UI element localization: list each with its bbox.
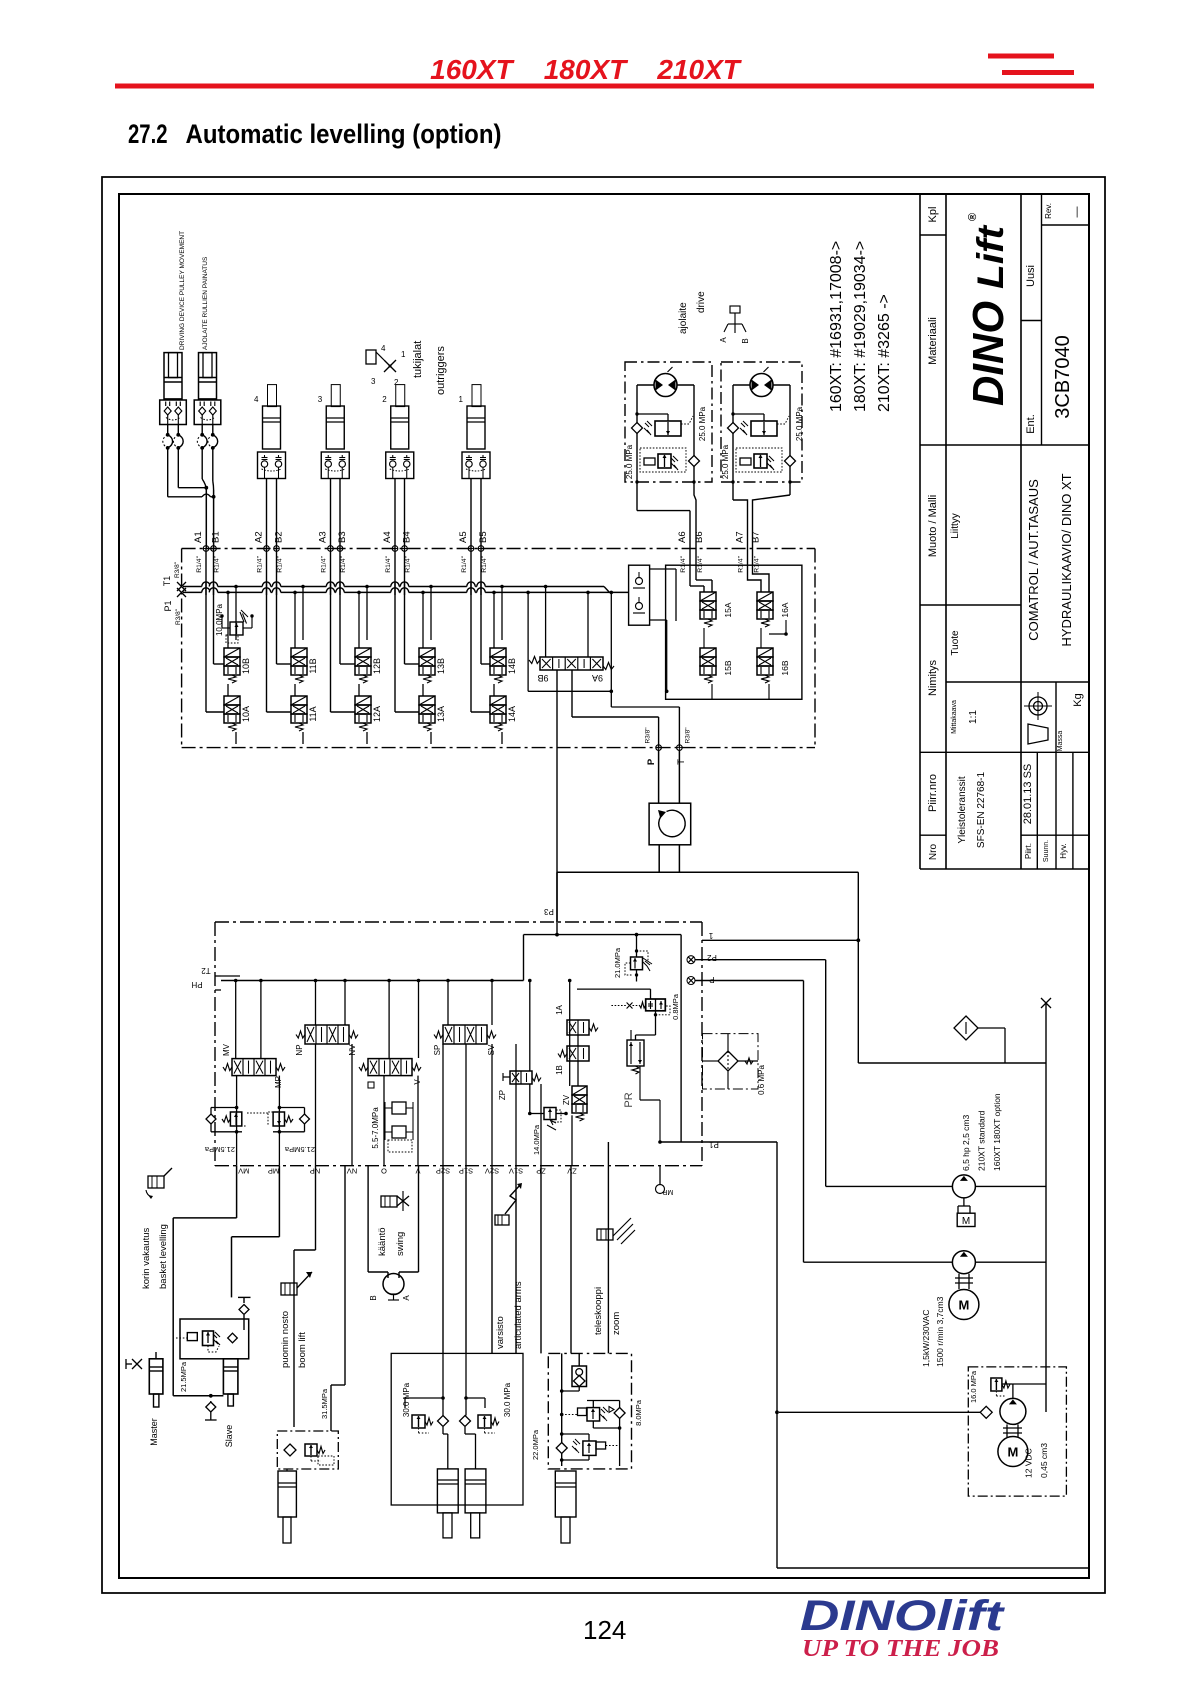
svg-text:A7: A7 — [735, 531, 746, 543]
rail hop at 481 — [477, 584, 485, 588]
arms cylinders — [437, 1469, 458, 1513]
svg-text:9B: 9B — [537, 673, 548, 683]
svg-text:A3: A3 — [318, 531, 329, 543]
svg-text:A4: A4 — [382, 531, 393, 543]
svg-text:COMATROL / AUT.TASAUS: COMATROL / AUT.TASAUS — [1026, 479, 1041, 641]
valve 12A — [355, 696, 371, 705]
return filter 0.6MPa — [703, 1034, 759, 1089]
svg-text:30.0 MPa: 30.0 MPa — [402, 1382, 411, 1417]
wires S ports down — [442, 1166, 444, 1354]
svg-text:UP TO THE JOB: UP TO THE JOB — [802, 1636, 999, 1662]
svg-text:5.5-7.0MPa: 5.5-7.0MPa — [371, 1107, 380, 1149]
svg-text:DINO: DINO — [964, 301, 1013, 406]
svg-text:10B: 10B — [241, 658, 251, 674]
rail hop at 266.5 — [262, 584, 270, 588]
wires cylinder 4 to ports — [266, 479, 268, 549]
valve 16B — [757, 648, 773, 657]
wires ZP ZV down — [540, 1166, 542, 1354]
suction vertical — [1045, 1003, 1047, 1412]
svg-text:2: 2 — [382, 395, 387, 404]
svg-text:PH: PH — [191, 980, 202, 989]
svg-text:HYDRAULIKAAVIO/ DINO XT: HYDRAULIKAAVIO/ DINO XT — [1059, 473, 1074, 646]
svg-text:A: A — [402, 1295, 411, 1301]
valve block 15 16 — [666, 565, 802, 699]
svg-text:B4: B4 — [402, 531, 413, 543]
boom lift lever icon — [281, 1283, 297, 1295]
svg-text:10A: 10A — [241, 706, 251, 722]
pilot check block — [629, 565, 650, 625]
svg-text:R1/4": R1/4" — [321, 555, 328, 572]
svg-text:P: P — [709, 975, 714, 984]
wires valve 12 — [358, 592, 360, 648]
wires coupling to P3 trunk — [658, 845, 660, 873]
svg-text:16.0 MPa: 16.0 MPa — [969, 1370, 978, 1403]
svg-text:P: P — [646, 758, 657, 765]
pilot check telescope — [572, 1366, 587, 1387]
slave cylinder — [223, 1359, 238, 1394]
svg-text:160XT 180XT option: 160XT 180XT option — [992, 1093, 1002, 1171]
svg-text:MV: MV — [222, 1043, 231, 1056]
svg-text:P3: P3 — [544, 907, 554, 916]
svg-text:1,5kW/230VAC: 1,5kW/230VAC — [921, 1310, 931, 1367]
electric pump 1.5kW — [952, 1251, 975, 1274]
svg-text:R1/4": R1/4" — [754, 555, 761, 572]
svg-text:3: 3 — [371, 377, 376, 386]
svg-text:R1/4": R1/4" — [481, 555, 488, 572]
master cylinder — [149, 1359, 163, 1394]
svg-text:Piirr.nro: Piirr.nro — [927, 774, 939, 812]
svg-text:MP: MP — [268, 1167, 279, 1176]
svg-text:160XT 180XT 210XT: 160XT 180XT 210XT — [430, 54, 743, 85]
svg-text:3: 3 — [318, 395, 323, 404]
drive motor circuit box 2 — [721, 362, 802, 482]
crossover relief valves 1 — [632, 423, 643, 434]
wires O V to swing motor — [367, 1166, 369, 1272]
valve 14A — [490, 696, 506, 705]
svg-text:3CB7040: 3CB7040 — [1052, 335, 1074, 418]
svg-text:Hyv.: Hyv. — [1059, 843, 1068, 858]
svg-text:1A: 1A — [555, 1004, 564, 1014]
svg-text:basket levelling: basket levelling — [158, 1224, 169, 1289]
valve ZP — [510, 1071, 532, 1084]
svg-text:B7: B7 — [751, 531, 762, 543]
svg-text:R1/4": R1/4" — [257, 555, 264, 572]
svg-text:teleskooppi: teleskooppi — [593, 1287, 604, 1335]
svg-text:Slave: Slave — [224, 1425, 234, 1448]
svg-text:MP: MP — [274, 1076, 283, 1088]
wires valve 13 — [422, 592, 424, 648]
svg-text:A6: A6 — [677, 531, 688, 543]
svg-text:1:1: 1:1 — [968, 710, 979, 724]
svg-text:R3/8": R3/8" — [685, 727, 692, 744]
svg-text:R1/4": R1/4" — [214, 555, 221, 572]
inner drawing frame — [119, 194, 1089, 1578]
upper manifold dash-dot boundary — [182, 548, 815, 550]
valve 16A — [757, 592, 773, 601]
hydraulic motor 2 — [750, 374, 773, 397]
lock valve block 1 — [160, 400, 187, 425]
rail hop at 276.5 — [272, 584, 280, 588]
wire 471 to valve column — [470, 549, 472, 713]
svg-text:Automatic levelling (option): Automatic levelling (option) — [186, 119, 502, 149]
svg-text:R1/4": R1/4" — [680, 555, 687, 572]
svg-text:R3/8": R3/8" — [645, 727, 652, 744]
breather symbol — [1041, 998, 1051, 1008]
outrigger lock valve block 2 — [386, 452, 414, 479]
svg-text:15B: 15B — [723, 660, 733, 675]
port MP stub — [659, 1166, 661, 1184]
svg-text:9A: 9A — [592, 673, 603, 683]
svg-text:NV: NV — [347, 1167, 357, 1176]
svg-text:10.0MPa: 10.0MPa — [215, 603, 224, 636]
svg-text:R1/4": R1/4" — [340, 555, 347, 572]
wire drop x448 — [447, 981, 449, 1026]
relief pair 21.5MPa basket — [210, 1108, 212, 1132]
wires motor loop 2 — [732, 385, 734, 482]
svg-text:16B: 16B — [780, 660, 790, 675]
wire P to electric pump — [695, 980, 804, 982]
check drain below — [206, 1402, 216, 1412]
svg-text:M: M — [958, 1298, 969, 1313]
rail hop at 213.5 — [209, 584, 217, 588]
svg-text:drive: drive — [696, 291, 707, 313]
relief 16.0MPa — [991, 1378, 1002, 1391]
svg-text:1: 1 — [401, 350, 406, 359]
engine pump 6.5hp — [952, 1175, 975, 1198]
svg-text:8.0MPa: 8.0MPa — [634, 1399, 643, 1426]
svg-text:R1/4": R1/4" — [196, 555, 203, 572]
lower manifold supply rail — [221, 980, 524, 982]
svg-text:4: 4 — [381, 344, 386, 353]
valve 9B 9A — [540, 657, 603, 670]
svg-text:zoom: zoom — [611, 1312, 622, 1335]
valve 13A — [419, 696, 435, 705]
outrigger lock valve block 3 — [321, 452, 349, 479]
arms relief block 30.0MPa — [391, 1353, 523, 1505]
wires valve 11 — [294, 592, 296, 648]
svg-text:—: — — [1071, 207, 1083, 218]
svg-text:Materiaali: Materiaali — [927, 317, 939, 365]
DINO Lift logo in title block — [964, 213, 1013, 406]
svg-text:MV: MV — [238, 1167, 249, 1176]
svg-text:25.0 MPa: 25.0 MPa — [795, 406, 804, 441]
svg-text:B5: B5 — [478, 531, 489, 543]
valve PR — [627, 1040, 644, 1066]
svg-text:B: B — [369, 1295, 378, 1300]
relief 21.0MPa — [636, 935, 638, 957]
telescope relief upper — [562, 1414, 577, 1416]
wires NP NV to boom valve — [315, 1166, 317, 1250]
svg-text:14A: 14A — [507, 706, 517, 722]
outrigger cylinder 1 — [472, 385, 481, 407]
svg-text:11B: 11B — [308, 658, 318, 673]
drive motor circuit box 1 — [625, 362, 712, 482]
wire dd lines merge to A1 B1 — [177, 448, 179, 488]
svg-text:R1/4": R1/4" — [738, 555, 745, 572]
svg-text:B1: B1 — [211, 531, 222, 543]
header logo bars — [988, 54, 1054, 59]
crossover relief valves 2 — [728, 423, 739, 434]
svg-text:PR: PR — [623, 1092, 635, 1107]
check valve to slave — [238, 1296, 251, 1298]
svg-text:B6: B6 — [694, 531, 705, 543]
rail hop at 404.5 — [400, 584, 408, 588]
svg-text:R3/8": R3/8" — [175, 608, 182, 625]
svg-text:Kg: Kg — [1072, 693, 1084, 706]
svg-text:DINOlift: DINOlift — [800, 1592, 1005, 1640]
hydraulic motor 1 — [654, 374, 677, 397]
wires check block to trunk — [650, 568, 676, 570]
svg-text:SFS-EN 22768-1: SFS-EN 22768-1 — [976, 771, 987, 848]
port T — [677, 745, 683, 751]
svg-text:6,5 hp 2,5 cm3: 6,5 hp 2,5 cm3 — [961, 1114, 971, 1171]
valve 11A — [291, 696, 307, 705]
svg-text:22.0MPa: 22.0MPa — [531, 1429, 540, 1460]
svg-text:160XT: #16931,17008->: 160XT: #16931,17008-> — [828, 241, 845, 412]
outrigger cylinder 4 — [268, 385, 277, 407]
telescope relief lower — [556, 1443, 567, 1454]
wire drop x418.5 — [418, 981, 420, 1059]
svg-text:kääntö: kääntö — [377, 1227, 388, 1256]
svg-text:Mittakaava: Mittakaava — [951, 700, 958, 734]
svg-text:25.0 MPa: 25.0 MPa — [721, 444, 730, 479]
valve 1A 1B — [567, 1020, 589, 1035]
svg-text:31.5MPa: 31.5MPa — [320, 1388, 329, 1419]
svg-text:Liittyy: Liittyy — [950, 513, 961, 539]
outrigger cylinder 2 — [396, 385, 405, 407]
wires cylinder 3 to ports — [330, 479, 332, 549]
lock valve block 2 — [194, 400, 221, 425]
wires cylinder 1 to ports — [470, 479, 472, 549]
swing lever icon — [381, 1196, 397, 1207]
svg-text:4: 4 — [254, 395, 259, 404]
svg-text:124: 124 — [583, 1615, 626, 1645]
svg-text:0,45 cm3: 0,45 cm3 — [1039, 1443, 1049, 1478]
wire A1 B1 to valve 10 — [205, 549, 207, 713]
svg-text:®: ® — [967, 213, 979, 221]
svg-text:27.2: 27.2 — [128, 119, 168, 149]
port T1 — [177, 582, 186, 591]
wires drive boxes to ports A6 B6 A7 B7 — [636, 482, 638, 511]
wire drop x389.1 — [388, 981, 390, 1059]
ports A1-B5 — [203, 546, 209, 552]
valve 12B — [355, 648, 371, 657]
svg-text:11A: 11A — [308, 706, 318, 721]
svg-text:korin vakautus: korin vakautus — [141, 1227, 152, 1289]
svg-text:A2: A2 — [254, 531, 265, 543]
svg-text:1500 r/min 3,7cm3: 1500 r/min 3,7cm3 — [935, 1296, 945, 1367]
svg-text:ZV: ZV — [562, 1094, 571, 1105]
svg-text:T: T — [676, 759, 687, 765]
outrigger lock valve block 1 — [462, 452, 490, 479]
wires valves to bottom ports — [236, 1076, 238, 1166]
wire drop x260.9 — [260, 981, 262, 1059]
svg-text:Nro: Nro — [928, 844, 939, 861]
svg-text:Uusi: Uusi — [1025, 265, 1037, 287]
svg-text:180XT: #19029,19034->: 180XT: #19029,19034-> — [852, 241, 869, 412]
svg-text:R1/4": R1/4" — [385, 555, 392, 572]
valve 15A — [700, 592, 716, 601]
lower manifold dash-dot box — [215, 921, 702, 923]
wires valve 9 — [545, 587, 547, 658]
emergency pump — [1000, 1398, 1026, 1424]
svg-text:28.01.13 SS: 28.01.13 SS — [1022, 764, 1034, 825]
svg-text:0.8MPa: 0.8MPa — [671, 993, 680, 1020]
P3 distribution wires — [556, 922, 558, 935]
svg-text:Tuote: Tuote — [950, 630, 961, 656]
wire 330.5 to valve column — [330, 549, 332, 713]
outrigger joystick icon — [366, 350, 376, 364]
reducing valve 0.8MPa — [577, 988, 651, 990]
wire drop x569.7 — [569, 981, 571, 1087]
wire port 1 to suction — [702, 939, 858, 941]
A1 B1 risers — [205, 488, 207, 549]
svg-text:T1: T1 — [162, 576, 172, 587]
svg-text:Nimitys: Nimitys — [927, 659, 939, 696]
wires cylinder 2 to ports — [394, 479, 396, 549]
svg-text:Suunn.: Suunn. — [1043, 840, 1050, 862]
telescope cylinder — [555, 1471, 576, 1517]
valve 15B — [700, 648, 716, 657]
title block grid — [919, 194, 921, 869]
svg-text:1: 1 — [459, 395, 464, 404]
svg-text:outriggers: outriggers — [435, 346, 447, 395]
basket levelling hand symbol — [148, 1176, 164, 1188]
svg-text:14B: 14B — [507, 658, 517, 674]
levelling valve block 21.5MPa — [180, 1319, 249, 1359]
rail hop at 471 — [467, 584, 475, 588]
valve NP NV — [305, 1025, 349, 1044]
valve 10B — [224, 648, 240, 657]
svg-text:14.0MPa: 14.0MPa — [532, 1124, 541, 1155]
svg-text:21.5MPa: 21.5MPa — [204, 1145, 235, 1154]
drive direction symbol A B — [730, 306, 740, 313]
PR connection lines — [639, 1078, 641, 1100]
svg-text:12B: 12B — [372, 658, 382, 674]
svg-text:B: B — [741, 338, 750, 343]
svg-text:R1/4": R1/4" — [697, 555, 704, 572]
svg-text:0.6 MPa: 0.6 MPa — [757, 1065, 766, 1095]
outrigger cylinder 3 — [331, 385, 340, 407]
rail hop at 206 — [202, 584, 210, 588]
wires valve 14 — [493, 592, 495, 648]
svg-text:R1/4": R1/4" — [277, 555, 284, 572]
svg-text:articulated arms: articulated arms — [513, 1281, 524, 1349]
svg-text:ZP: ZP — [498, 1090, 507, 1100]
wires motor loop 1 — [636, 385, 638, 482]
svg-text:210XT standard: 210XT standard — [977, 1110, 987, 1171]
wires valve 10 — [227, 592, 229, 648]
svg-text:Kpl: Kpl — [927, 207, 939, 223]
svg-text:12A: 12A — [372, 706, 382, 722]
telescope icon — [597, 1229, 613, 1240]
wire drop x529.8 — [529, 981, 531, 1072]
emergency pump box 12VDC — [968, 1367, 1066, 1496]
wire 395 to valve column — [394, 549, 396, 713]
svg-text:P2: P2 — [707, 953, 717, 962]
tank return line — [660, 1141, 777, 1143]
hose arcs — [167, 425, 169, 435]
valve MV MP — [232, 1059, 276, 1076]
wires A6 B6 to valve15 — [689, 549, 691, 587]
valve 11B — [291, 648, 307, 657]
svg-text:13A: 13A — [436, 706, 446, 722]
svg-text:NP: NP — [295, 1044, 304, 1055]
svg-text:tukijalat: tukijalat — [412, 341, 424, 378]
svg-text:12 VDC: 12 VDC — [1024, 1448, 1034, 1478]
wire drop x315.5 — [315, 981, 317, 1026]
svg-text:M: M — [962, 1216, 970, 1227]
relief 14.0MPa — [544, 1108, 556, 1120]
svg-text:MP: MP — [662, 1188, 673, 1195]
svg-text:Yleistoleranssit: Yleistoleranssit — [957, 776, 968, 843]
wire drop x235.7 — [235, 981, 237, 1059]
svg-text:R1/4": R1/4" — [461, 555, 468, 572]
valve ZV — [572, 1086, 587, 1095]
valve 13B — [419, 648, 435, 657]
svg-text:15A: 15A — [723, 602, 733, 617]
header red rule — [115, 84, 1094, 89]
svg-text:B3: B3 — [337, 531, 348, 543]
svg-text:T2: T2 — [201, 966, 211, 975]
wire 14 feed to T drop — [526, 591, 530, 595]
outer drawing frame — [102, 177, 1105, 1593]
svg-text:A5: A5 — [458, 531, 469, 543]
svg-text:O: O — [381, 1167, 387, 1176]
svg-text:AJOLAITE RULLIEN PAINATUS: AJOLAITE RULLIEN PAINATUS — [202, 256, 209, 350]
svg-text:A: A — [719, 337, 728, 343]
telescope valve box — [548, 1353, 631, 1469]
svg-text:1: 1 — [708, 931, 713, 940]
svg-text:B2: B2 — [274, 531, 285, 543]
svg-text:Massa: Massa — [1057, 731, 1064, 752]
wires A7 B7 to valve16 — [748, 549, 762, 593]
svg-text:Rev.: Rev. — [1044, 203, 1053, 219]
wire drop x492 — [491, 981, 493, 1026]
svg-text:boom lift: boom lift — [297, 1332, 308, 1368]
svg-text:P1: P1 — [163, 600, 173, 611]
svg-text:Master: Master — [149, 1418, 159, 1446]
check suction — [980, 1406, 992, 1418]
svg-text:2: 2 — [394, 378, 399, 387]
svg-text:A1: A1 — [193, 531, 204, 543]
svg-text:ajolaite: ajolaite — [678, 302, 689, 334]
swing motor — [383, 1274, 404, 1295]
svg-text:DRIVING DEVICE PULLEY MOVEMENT: DRIVING DEVICE PULLEY MOVEMENT — [179, 231, 186, 350]
svg-text:R3/8": R3/8" — [174, 561, 181, 578]
wire 266.5 to valve column — [266, 549, 268, 713]
driving device cylinder 2 — [199, 353, 217, 399]
svg-text:ZV: ZV — [567, 1167, 577, 1176]
svg-text:30.0 MPa: 30.0 MPa — [503, 1382, 512, 1417]
port P — [656, 745, 662, 751]
driving device cylinder 1 — [164, 353, 182, 399]
valve O V — [368, 1059, 412, 1076]
svg-text:21.5MPa: 21.5MPa — [284, 1145, 315, 1154]
wire P2 to engine pump — [695, 959, 826, 961]
valve 14B — [490, 648, 506, 657]
svg-text:13B: 13B — [436, 658, 446, 674]
svg-text:puomin nosto: puomin nosto — [280, 1311, 291, 1368]
svg-text:16A: 16A — [780, 602, 790, 617]
svg-text:Muoto / Malli: Muoto / Malli — [927, 495, 939, 557]
svg-text:Piirt.: Piirt. — [1024, 843, 1033, 859]
valve SP SV — [443, 1025, 487, 1044]
T rail — [183, 586, 604, 588]
valve 10A — [224, 696, 240, 705]
rail hop at 330.5 — [326, 584, 334, 588]
svg-text:varsisto: varsisto — [495, 1316, 506, 1349]
